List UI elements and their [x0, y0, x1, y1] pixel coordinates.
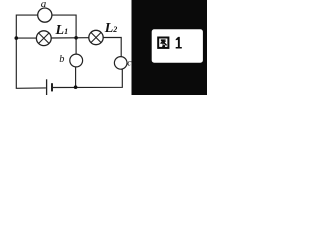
- svg-text:b: b: [59, 54, 64, 65]
- svg-text:a: a: [41, 0, 47, 10]
